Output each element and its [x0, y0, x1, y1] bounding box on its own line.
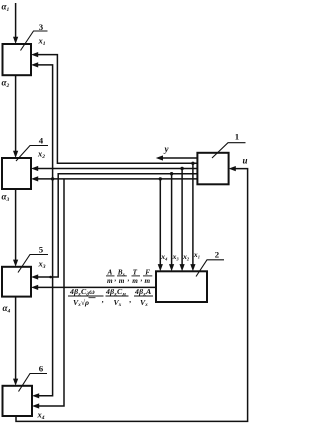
- arrowhead block4 lower input: [31, 176, 38, 181]
- fraction bar T/m: [132, 275, 141, 277]
- svg-text:m: m: [145, 277, 151, 285]
- arrowhead block5 upper input: [31, 274, 38, 279]
- wire alpha1 input: [15, 3, 17, 39]
- arrowhead x3 drop into block2: [169, 264, 174, 271]
- wire x3 drop to block2: [171, 174, 173, 267]
- fraction bar row2 second: [106, 295, 129, 297]
- wire y output: [161, 157, 197, 159]
- svg-text:F: F: [145, 268, 150, 276]
- block 2: [156, 271, 207, 302]
- junction dot x1 drop: [191, 162, 194, 165]
- svg-text:A: A: [107, 268, 113, 276]
- fraction bar F/m: [143, 275, 152, 277]
- pointer label 3: [21, 31, 48, 51]
- arrowhead block6 lower input: [32, 403, 39, 408]
- wire block5 to block6: [15, 297, 17, 381]
- svg-text:m: m: [107, 277, 113, 285]
- block 5: [2, 267, 31, 297]
- arrowhead block6 upper input: [32, 393, 39, 398]
- svg-text:1: 1: [235, 132, 239, 142]
- svg-text:m: m: [119, 277, 125, 285]
- svg-text:m: m: [132, 277, 138, 285]
- wire x1 drop to block2: [192, 163, 194, 266]
- arrowhead into block3 top: [13, 37, 18, 44]
- junction dot on block5 upper input wire: [49, 276, 52, 279]
- arrowhead u into block1: [229, 166, 236, 171]
- arrowhead block3 upper input: [31, 52, 38, 57]
- fraction bar Bx/m: [117, 275, 127, 277]
- svg-text:,: ,: [127, 275, 130, 283]
- block 3: [3, 44, 32, 75]
- arrowhead x4 drop into block2: [158, 264, 163, 271]
- wire block2 output to block5 lower input: [36, 286, 156, 288]
- junction dot x4 drop: [159, 177, 162, 180]
- svg-text:3: 3: [39, 22, 44, 32]
- block 6: [3, 386, 33, 416]
- junction dot x3 drop: [170, 172, 173, 175]
- block 1: [197, 153, 228, 185]
- wire x4 branch up to block3 lower input: [36, 65, 53, 179]
- arrowhead x1 drop into block2: [190, 264, 195, 271]
- svg-text:2: 2: [215, 249, 220, 259]
- pointer label 4: [16, 146, 48, 162]
- svg-text:4: 4: [39, 136, 44, 146]
- arrowhead block4 upper input: [31, 166, 38, 171]
- arrowhead into block6 top: [13, 379, 18, 386]
- svg-text:,: ,: [140, 275, 143, 283]
- fraction bar A/m: [106, 275, 115, 277]
- arrowhead block3 lower input: [31, 62, 38, 67]
- pointer label 6: [19, 374, 48, 392]
- svg-text:6: 6: [39, 364, 44, 374]
- svg-text:5: 5: [39, 245, 44, 255]
- arrowhead block5 lower input: [31, 285, 38, 290]
- wire branch down to block6 lower input: [37, 179, 64, 406]
- wire block6 output x4 feedback to u: [16, 169, 248, 422]
- svg-text:u: u: [243, 156, 248, 166]
- pointer label 5: [18, 255, 48, 273]
- wire block4 to block5: [15, 189, 17, 262]
- wire x4 branch down to block6 upper input: [37, 179, 53, 396]
- wire x4 tap to block4 lower input: [36, 178, 197, 180]
- wire x2 drop to block2: [181, 169, 183, 267]
- svg-text:T: T: [133, 268, 138, 276]
- sqrt overbar rho: [89, 297, 96, 299]
- block 4: [2, 158, 31, 189]
- fraction bar row2 third: [134, 295, 153, 297]
- fraction bar row2 first: [68, 295, 104, 297]
- svg-text:Vx√ρ: Vx√ρ: [73, 298, 89, 308]
- arrowhead x2 drop into block2: [180, 264, 185, 271]
- junction dot x4-x52.6: [51, 177, 54, 180]
- arrowhead into block5 top: [13, 260, 18, 267]
- wire block3 to block4: [15, 75, 17, 153]
- pointer label 2: [196, 260, 224, 277]
- wire x2 tap to block4 upper input: [36, 168, 197, 170]
- arrowhead into block4 top: [13, 151, 18, 158]
- wire x1 tap to block3 upper input: [36, 55, 197, 164]
- svg-text:,: ,: [129, 295, 132, 304]
- pointer label 1: [212, 143, 246, 158]
- wire x3 tap to block5 upper input: [36, 174, 197, 277]
- junction dot x2 drop: [180, 167, 183, 170]
- wire x4 drop to block2: [159, 179, 161, 266]
- arrowhead y output: [156, 155, 163, 160]
